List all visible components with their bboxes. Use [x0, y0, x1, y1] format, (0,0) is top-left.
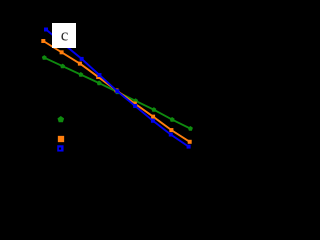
chart background — [0, 0, 208, 208]
orange line square markers — [41, 39, 191, 144]
blue line series — [46, 30, 189, 147]
orange line series — [43, 41, 189, 142]
svg-text:c: c — [61, 26, 69, 45]
blue line square markers — [44, 28, 191, 149]
green line series — [44, 58, 190, 129]
legend orange square marker — [58, 136, 64, 142]
legend green pentagon marker — [58, 116, 65, 122]
panel label box "c" — [52, 23, 76, 48]
green line pentagon markers — [42, 55, 193, 131]
legend blue square marker with dark center — [57, 145, 63, 151]
